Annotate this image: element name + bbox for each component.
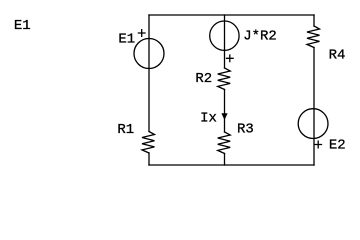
svg-text:E1: E1 <box>118 32 135 48</box>
svg-text:Ix: Ix <box>200 111 217 127</box>
svg-text:R4: R4 <box>329 48 346 64</box>
svg-text:E1: E1 <box>14 18 31 34</box>
svg-text:J*R2: J*R2 <box>243 28 277 44</box>
svg-text:E2: E2 <box>329 137 346 153</box>
svg-text:R3: R3 <box>237 122 254 138</box>
svg-text:R1: R1 <box>117 122 134 138</box>
svg-text:R2: R2 <box>195 71 212 87</box>
